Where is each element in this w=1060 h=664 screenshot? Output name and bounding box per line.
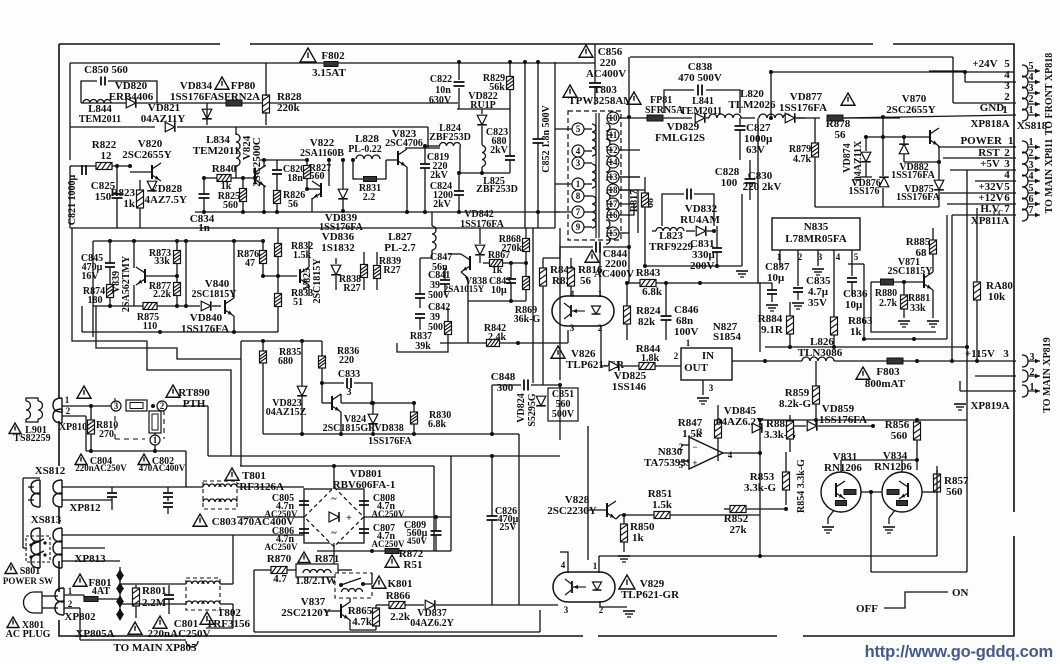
svg-text:TRF9229: TRF9229 bbox=[649, 241, 694, 253]
svg-text:2kV: 2kV bbox=[433, 199, 452, 210]
svg-text:10k: 10k bbox=[988, 291, 1006, 303]
svg-text:2kV: 2kV bbox=[490, 145, 509, 156]
svg-text:2: 2 bbox=[679, 442, 684, 452]
svg-text:2SC2120Y: 2SC2120Y bbox=[281, 607, 331, 619]
inductor L825 coil bbox=[482, 146, 486, 167]
wire driver bases bbox=[861, 491, 882, 493]
svg-text:3: 3 bbox=[576, 158, 581, 168]
svg-text:2.2M: 2.2M bbox=[142, 597, 167, 609]
T803 pin 9 bbox=[572, 221, 584, 233]
svg-text:800mAT: 800mAT bbox=[865, 378, 906, 390]
svg-text:AC PLUG: AC PLUG bbox=[6, 629, 51, 640]
wire subblock bottom rail bbox=[93, 305, 143, 307]
svg-text:PL-2.7: PL-2.7 bbox=[384, 242, 416, 254]
svg-text:TA75393S: TA75393S bbox=[644, 457, 692, 469]
svg-text:2: 2 bbox=[674, 351, 679, 361]
svg-text:AC400V: AC400V bbox=[586, 68, 626, 80]
svg-text:ON: ON bbox=[952, 587, 969, 599]
inductor L844 bbox=[83, 100, 111, 103]
svg-text:C821 1000μ: C821 1000μ bbox=[67, 174, 78, 225]
plug X801 bbox=[7, 617, 19, 628]
svg-text:56: 56 bbox=[835, 129, 847, 141]
capacitor C802 bbox=[138, 454, 150, 465]
svg-text:R27: R27 bbox=[383, 265, 400, 276]
svg-text:~: ~ bbox=[331, 528, 337, 539]
svg-text:POWER SW: POWER SW bbox=[3, 576, 53, 586]
resistor R875 bbox=[143, 303, 157, 310]
svg-text:+24V: +24V bbox=[972, 58, 997, 70]
svg-text:1: 1 bbox=[153, 435, 158, 445]
svg-text:2.2k: 2.2k bbox=[390, 611, 411, 623]
svg-text:5: 5 bbox=[1029, 61, 1034, 72]
diode VD839sym bbox=[338, 189, 348, 199]
svg-text:4: 4 bbox=[570, 289, 575, 299]
svg-text:1SS146: 1SS146 bbox=[612, 381, 647, 393]
svg-text:S5295G: S5295G bbox=[527, 393, 538, 427]
svg-text:1: 1 bbox=[1029, 105, 1034, 116]
svg-text:XP813: XP813 bbox=[74, 553, 106, 565]
wire xp810 rt890 bottom bbox=[62, 415, 86, 417]
svg-text:82k: 82k bbox=[638, 316, 656, 328]
svg-text:2: 2 bbox=[1004, 91, 1010, 103]
wire xp812 rail right bbox=[303, 487, 305, 489]
svg-text:150: 150 bbox=[95, 191, 112, 203]
wire v824 collector row bbox=[341, 402, 414, 404]
switch S801 bbox=[5, 563, 17, 574]
T803 pin 15 bbox=[607, 227, 619, 239]
resistor R872 bbox=[385, 549, 399, 554]
svg-text:+5V: +5V bbox=[980, 158, 1000, 170]
svg-text:220nAC250V: 220nAC250V bbox=[75, 463, 127, 473]
capacitor C801 bbox=[153, 616, 167, 628]
svg-text:4: 4 bbox=[1029, 72, 1034, 83]
T803 pin 3 bbox=[572, 157, 584, 169]
svg-text:500V: 500V bbox=[552, 409, 575, 420]
wire v870 bottom rail bbox=[815, 206, 939, 208]
wire +115 branches bbox=[915, 359, 919, 363]
wire rn1206 out bbox=[936, 505, 938, 556]
wire x630 vertical bbox=[628, 57, 630, 246]
svg-text:XS813: XS813 bbox=[31, 514, 62, 526]
+115V rail bbox=[900, 360, 1016, 362]
varistor stack bbox=[116, 569, 124, 576]
svg-text:4: 4 bbox=[728, 450, 733, 460]
capacitor C804 bbox=[75, 454, 87, 465]
wire y212 long bbox=[195, 211, 560, 213]
wire rail y101 bbox=[81, 102, 458, 104]
fuse FP80 bbox=[215, 77, 229, 89]
svg-text:TLM2026: TLM2026 bbox=[728, 99, 776, 111]
svg-text:1: 1 bbox=[1002, 104, 1008, 116]
svg-text:1SS176FA: 1SS176FA bbox=[181, 323, 229, 335]
svg-text:1k: 1k bbox=[850, 326, 863, 338]
svg-text:63V: 63V bbox=[746, 144, 765, 156]
T803 pin 5 bbox=[572, 123, 584, 135]
svg-text:VD838: VD838 bbox=[374, 423, 403, 434]
svg-text:XP805A: XP805A bbox=[75, 628, 114, 640]
svg-text:04AZ15Z: 04AZ15Z bbox=[266, 407, 307, 418]
capacitor C808b bbox=[164, 594, 174, 596]
svg-text:R51: R51 bbox=[404, 559, 423, 571]
svg-text:IN: IN bbox=[702, 350, 714, 362]
diode VD838a bbox=[331, 265, 341, 275]
svg-text:GND: GND bbox=[980, 102, 1005, 114]
svg-text:4: 4 bbox=[1004, 169, 1010, 181]
warn triangle near R878 bbox=[841, 93, 855, 105]
svg-text:R866: R866 bbox=[386, 590, 411, 602]
svg-text:1S1832: 1S1832 bbox=[321, 242, 355, 254]
svg-text:VD874: VD874 bbox=[842, 143, 853, 172]
svg-text:XP819A: XP819A bbox=[970, 400, 1009, 412]
svg-text:POWER: POWER bbox=[960, 135, 1003, 147]
svg-text:N835: N835 bbox=[804, 221, 829, 233]
capacitor C856 bbox=[579, 45, 593, 57]
svg-text:56: 56 bbox=[580, 275, 592, 287]
svg-text:2SC2655Y: 2SC2655Y bbox=[122, 149, 172, 161]
connector XP802 bbox=[55, 588, 64, 602]
box C851 bbox=[548, 388, 578, 421]
svg-text:2: 2 bbox=[1030, 367, 1035, 378]
wire vertical x560 bbox=[559, 228, 561, 380]
wire center-left verticals bbox=[554, 62, 556, 228]
svg-text:220: 220 bbox=[339, 355, 354, 366]
svg-text:33k: 33k bbox=[910, 303, 926, 314]
svg-text:2: 2 bbox=[66, 406, 71, 416]
warn triangle xp810 bbox=[77, 386, 91, 398]
wire top right bus bbox=[630, 56, 953, 58]
svg-text:+115V: +115V bbox=[965, 348, 995, 360]
svg-text:2: 2 bbox=[1029, 94, 1034, 105]
wire C844 join bbox=[543, 247, 593, 258]
svg-text:560: 560 bbox=[891, 430, 908, 442]
T803 pin 13 bbox=[607, 171, 619, 183]
svg-text:TEM2011: TEM2011 bbox=[193, 145, 239, 157]
svg-text:TO MAIN XP811: TO MAIN XP811 bbox=[1044, 139, 1055, 214]
T803 pin 8 bbox=[572, 190, 584, 202]
svg-text:ZBF253D: ZBF253D bbox=[429, 132, 471, 143]
wire rail301 bbox=[468, 300, 526, 302]
optocoupler V826 bbox=[552, 296, 614, 326]
wire v828 to c851 bbox=[559, 440, 561, 552]
svg-text:1: 1 bbox=[576, 179, 581, 189]
T803 pin 1 bbox=[572, 178, 584, 190]
fuse F802 bbox=[300, 48, 316, 62]
svg-text:S1854: S1854 bbox=[713, 331, 742, 343]
svg-text:04AZ6.2Y: 04AZ6.2Y bbox=[410, 618, 454, 629]
svg-text:R871: R871 bbox=[315, 553, 339, 565]
wire x525 vertical bbox=[524, 62, 526, 228]
svg-text:−: − bbox=[692, 442, 697, 452]
wire V871 loop1 bbox=[871, 282, 936, 332]
svg-text:2.7k: 2.7k bbox=[879, 298, 898, 309]
svg-text:C850 560: C850 560 bbox=[84, 64, 128, 76]
capacitor C844 bbox=[585, 250, 599, 262]
fuse F803 bbox=[856, 367, 870, 379]
svg-text:5: 5 bbox=[576, 124, 581, 134]
capacitor C812a bbox=[107, 492, 117, 494]
svg-text:1SS176FA: 1SS176FA bbox=[779, 102, 827, 114]
svg-text:7: 7 bbox=[1029, 205, 1034, 216]
svg-text:PL-0.22: PL-0.22 bbox=[348, 144, 382, 155]
fuse F801 bbox=[73, 574, 87, 586]
wire driver tops bbox=[840, 460, 842, 472]
wire v829 vertical links bbox=[564, 601, 566, 605]
svg-text:16V: 16V bbox=[81, 271, 99, 282]
svg-text:10μ: 10μ bbox=[767, 272, 785, 284]
capacitor C812b bbox=[163, 492, 173, 494]
wire N827 to regulator bbox=[732, 360, 765, 362]
svg-text:2SA1015Y: 2SA1015Y bbox=[444, 284, 485, 294]
wire c841 feed bbox=[419, 258, 421, 280]
svg-text:450V: 450V bbox=[407, 536, 428, 546]
wire subblock top rail bbox=[93, 240, 264, 242]
svg-text:4: 4 bbox=[1029, 171, 1034, 182]
svg-text:FMLG12S: FMLG12S bbox=[655, 132, 705, 144]
svg-text:PTH: PTH bbox=[183, 398, 206, 410]
fuse FP81 bbox=[627, 92, 641, 104]
wire feedback verticals bbox=[599, 247, 601, 297]
thermistor RT890 bbox=[166, 385, 180, 397]
svg-text:2SA1160B: 2SA1160B bbox=[300, 148, 344, 159]
svg-text:RN1206: RN1206 bbox=[874, 461, 912, 473]
svg-text:C803: C803 bbox=[212, 516, 237, 528]
svg-text:ZBF253D: ZBF253D bbox=[476, 184, 518, 195]
svg-text:35V: 35V bbox=[808, 297, 827, 309]
svg-text:1: 1 bbox=[1029, 137, 1034, 148]
wire opamp rail bbox=[760, 419, 967, 421]
capacitor C843sym bbox=[506, 278, 516, 280]
svg-text:1SS176FA: 1SS176FA bbox=[896, 192, 940, 203]
svg-text:1.5k: 1.5k bbox=[652, 499, 673, 511]
svg-text:2SC2500C: 2SC2500C bbox=[251, 137, 263, 187]
svg-text:39k: 39k bbox=[415, 341, 431, 352]
svg-text:2SA562TMY: 2SA562TMY bbox=[121, 255, 132, 312]
svg-text:K801: K801 bbox=[387, 578, 412, 590]
svg-text:3: 3 bbox=[1029, 83, 1034, 94]
svg-text:7: 7 bbox=[576, 207, 581, 217]
svg-text:1: 1 bbox=[1008, 135, 1014, 147]
svg-text:68: 68 bbox=[916, 247, 928, 259]
svg-text:560: 560 bbox=[310, 171, 325, 182]
resistor R871 bbox=[298, 552, 310, 563]
svg-text:3: 3 bbox=[698, 427, 703, 437]
wire ground rail y228 bbox=[70, 227, 555, 229]
svg-text:R840: R840 bbox=[212, 163, 237, 175]
svg-text:3.15AT: 3.15AT bbox=[312, 67, 346, 79]
wire +5V rail bbox=[765, 346, 967, 348]
svg-text:3: 3 bbox=[114, 401, 119, 411]
wire top rail bbox=[70, 62, 595, 64]
svg-text:9.1R: 9.1R bbox=[761, 324, 784, 336]
wire v823 collector bbox=[405, 147, 440, 149]
svg-text:33k: 33k bbox=[154, 256, 170, 267]
svg-text:L78MR05FA: L78MR05FA bbox=[785, 233, 847, 245]
svg-text:VD824: VD824 bbox=[516, 393, 527, 422]
svg-text:2SC2230Y: 2SC2230Y bbox=[547, 505, 597, 517]
svg-text:220nAC250V: 220nAC250V bbox=[148, 628, 211, 640]
svg-text:TPW3258AM: TPW3258AM bbox=[568, 95, 634, 107]
svg-text:1SS176FA: 1SS176FA bbox=[368, 436, 412, 447]
T803 pin 16 bbox=[607, 209, 619, 221]
T803 pin 12 bbox=[607, 144, 619, 156]
svg-text:R27: R27 bbox=[343, 283, 360, 294]
wire emitter rail bbox=[82, 331, 278, 333]
T803 pin 7 bbox=[572, 206, 584, 218]
svg-text:1k: 1k bbox=[632, 532, 645, 544]
label TO MAIN XP805 bbox=[186, 641, 198, 647]
connector XP810 bbox=[53, 398, 62, 412]
wire base row bbox=[263, 275, 297, 277]
diode VD843 bbox=[475, 245, 485, 255]
svg-text:2kV: 2kV bbox=[430, 170, 449, 181]
svg-text:04AZ7.5Y: 04AZ7.5Y bbox=[139, 194, 187, 206]
svg-text:10μ: 10μ bbox=[491, 285, 507, 296]
capacitor C803 label bbox=[193, 514, 207, 526]
wire rail y127 bbox=[70, 126, 155, 128]
svg-text:220 2kV: 220 2kV bbox=[743, 181, 782, 193]
svg-text:TEM2011: TEM2011 bbox=[79, 114, 121, 125]
svg-text:3: 3 bbox=[1030, 352, 1035, 363]
svg-text:F803: F803 bbox=[876, 366, 900, 378]
svg-text:3: 3 bbox=[1029, 160, 1034, 171]
svg-text:4: 4 bbox=[576, 146, 581, 156]
transformer T802 bbox=[200, 612, 214, 624]
svg-text:04AZ11Y: 04AZ11Y bbox=[141, 113, 186, 125]
svg-text:220k: 220k bbox=[277, 102, 301, 114]
svg-text:2SC2655Y: 2SC2655Y bbox=[886, 104, 936, 116]
svg-text:C833: C833 bbox=[338, 369, 360, 380]
svg-text:1k: 1k bbox=[123, 198, 136, 210]
svg-text:470AC400V: 470AC400V bbox=[139, 463, 186, 473]
svg-text:3: 3 bbox=[347, 387, 352, 398]
svg-text:OUT: OUT bbox=[684, 362, 709, 374]
svg-text:2: 2 bbox=[1029, 148, 1034, 159]
wire k801 to c809 rail bbox=[371, 551, 373, 573]
svg-text:630V: 630V bbox=[429, 95, 452, 106]
svg-text:300: 300 bbox=[497, 382, 514, 394]
svg-text:TO MAIN XP819: TO MAIN XP819 bbox=[1042, 337, 1053, 412]
T803 primary winding bbox=[592, 124, 596, 156]
optocoupler V829 bbox=[553, 572, 615, 602]
svg-text:2: 2 bbox=[160, 401, 165, 411]
svg-text:2SC1815Y: 2SC1815Y bbox=[887, 266, 933, 277]
svg-text:2SC1815GR: 2SC1815GR bbox=[323, 423, 377, 434]
wire staircase B bbox=[96, 306, 241, 359]
svg-text:2.2k: 2.2k bbox=[153, 289, 172, 300]
svg-text:36k-G: 36k-G bbox=[514, 314, 541, 325]
wire x186 loop bbox=[185, 241, 187, 306]
svg-text:TO FRONT XP818: TO FRONT XP818 bbox=[1044, 53, 1055, 135]
svg-text:4AT: 4AT bbox=[92, 586, 110, 597]
wire y173 row bbox=[460, 172, 510, 174]
svg-text:100: 100 bbox=[721, 177, 738, 189]
transformer T801 bbox=[225, 468, 239, 480]
svg-text:3: 3 bbox=[709, 383, 714, 393]
svg-text:RU4AM: RU4AM bbox=[680, 214, 720, 226]
svg-text:6.8k: 6.8k bbox=[642, 286, 663, 298]
T803 pin 10 bbox=[607, 112, 619, 124]
svg-text:8.2k-G: 8.2k-G bbox=[779, 398, 812, 410]
svg-text:1: 1 bbox=[1030, 382, 1035, 393]
svg-text:18n: 18n bbox=[287, 173, 303, 184]
IC N835 bbox=[772, 218, 860, 250]
svg-text:OFF: OFF bbox=[856, 603, 878, 615]
svg-text:5: 5 bbox=[854, 252, 859, 262]
svg-text:XP810: XP810 bbox=[59, 422, 87, 433]
svg-text:+: + bbox=[692, 458, 697, 468]
svg-text:680: 680 bbox=[278, 356, 293, 367]
wire comparator nets bbox=[759, 453, 761, 515]
svg-text:8: 8 bbox=[576, 191, 581, 201]
svg-text:C822: C822 bbox=[430, 74, 452, 85]
svg-text:R843: R843 bbox=[636, 267, 661, 279]
svg-text:180: 180 bbox=[88, 295, 103, 306]
svg-text:F802: F802 bbox=[321, 50, 345, 62]
svg-text:3: 3 bbox=[570, 323, 575, 333]
wire V871 loop2 bbox=[864, 264, 947, 339]
svg-text:2SC1815Y: 2SC1815Y bbox=[312, 258, 323, 304]
svg-text:2: 2 bbox=[598, 323, 603, 333]
svg-text:RU1P: RU1P bbox=[470, 100, 496, 111]
svg-text:25V: 25V bbox=[499, 522, 517, 533]
wire bridge nets bbox=[237, 516, 304, 518]
svg-text:R801: R801 bbox=[142, 585, 166, 597]
svg-text:XP812: XP812 bbox=[69, 502, 101, 514]
svg-text:6: 6 bbox=[1029, 194, 1034, 205]
T803 pin 14 bbox=[607, 156, 619, 168]
wire lower control rails bbox=[263, 433, 519, 435]
wire c848 drop bbox=[491, 385, 493, 434]
svg-text:7: 7 bbox=[1004, 203, 1010, 215]
svg-text:470 500V: 470 500V bbox=[678, 72, 722, 84]
T803 pin 4 bbox=[572, 145, 584, 157]
svg-text:270: 270 bbox=[99, 429, 114, 440]
svg-text:1: 1 bbox=[65, 395, 70, 405]
svg-text:27k: 27k bbox=[729, 524, 747, 536]
T803 secondary winding bbox=[606, 123, 610, 147]
T803 pin 18 bbox=[607, 184, 619, 196]
svg-text:+: + bbox=[346, 513, 352, 524]
svg-text:http://www.go-gddq.com: http://www.go-gddq.com bbox=[865, 643, 1053, 661]
svg-text:1SS176FA: 1SS176FA bbox=[460, 219, 504, 230]
svg-text:3: 3 bbox=[564, 605, 569, 615]
svg-text:1: 1 bbox=[686, 338, 691, 348]
svg-text:100V: 100V bbox=[674, 326, 699, 338]
svg-text:2.2: 2.2 bbox=[363, 192, 376, 203]
wire v837 bottom bbox=[253, 570, 255, 632]
svg-text:TO MAIN XP805: TO MAIN XP805 bbox=[114, 642, 197, 654]
svg-text:9: 9 bbox=[576, 222, 581, 232]
svg-text:4.7: 4.7 bbox=[273, 573, 287, 585]
svg-text:10μ: 10μ bbox=[845, 299, 863, 311]
wire staircase A bbox=[72, 228, 231, 456]
svg-text:1SS176FA: 1SS176FA bbox=[319, 222, 363, 233]
relay K801 bbox=[372, 576, 386, 588]
svg-text:560: 560 bbox=[946, 486, 963, 498]
svg-text:~: ~ bbox=[331, 494, 337, 505]
svg-text:560: 560 bbox=[223, 200, 238, 211]
wire vd822 row bbox=[457, 108, 510, 110]
svg-text:04AZ11X: 04AZ11X bbox=[853, 140, 864, 181]
svg-text:110: 110 bbox=[143, 321, 157, 332]
svg-text:56: 56 bbox=[288, 199, 298, 210]
transformer T803 bbox=[563, 85, 577, 97]
svg-text:1SS176FA: 1SS176FA bbox=[891, 170, 935, 181]
svg-text:R854 3.3k-G: R854 3.3k-G bbox=[796, 459, 807, 513]
svg-text:12: 12 bbox=[101, 150, 113, 162]
connector XS818 pins bbox=[1022, 65, 1028, 77]
svg-text:51: 51 bbox=[293, 297, 303, 308]
